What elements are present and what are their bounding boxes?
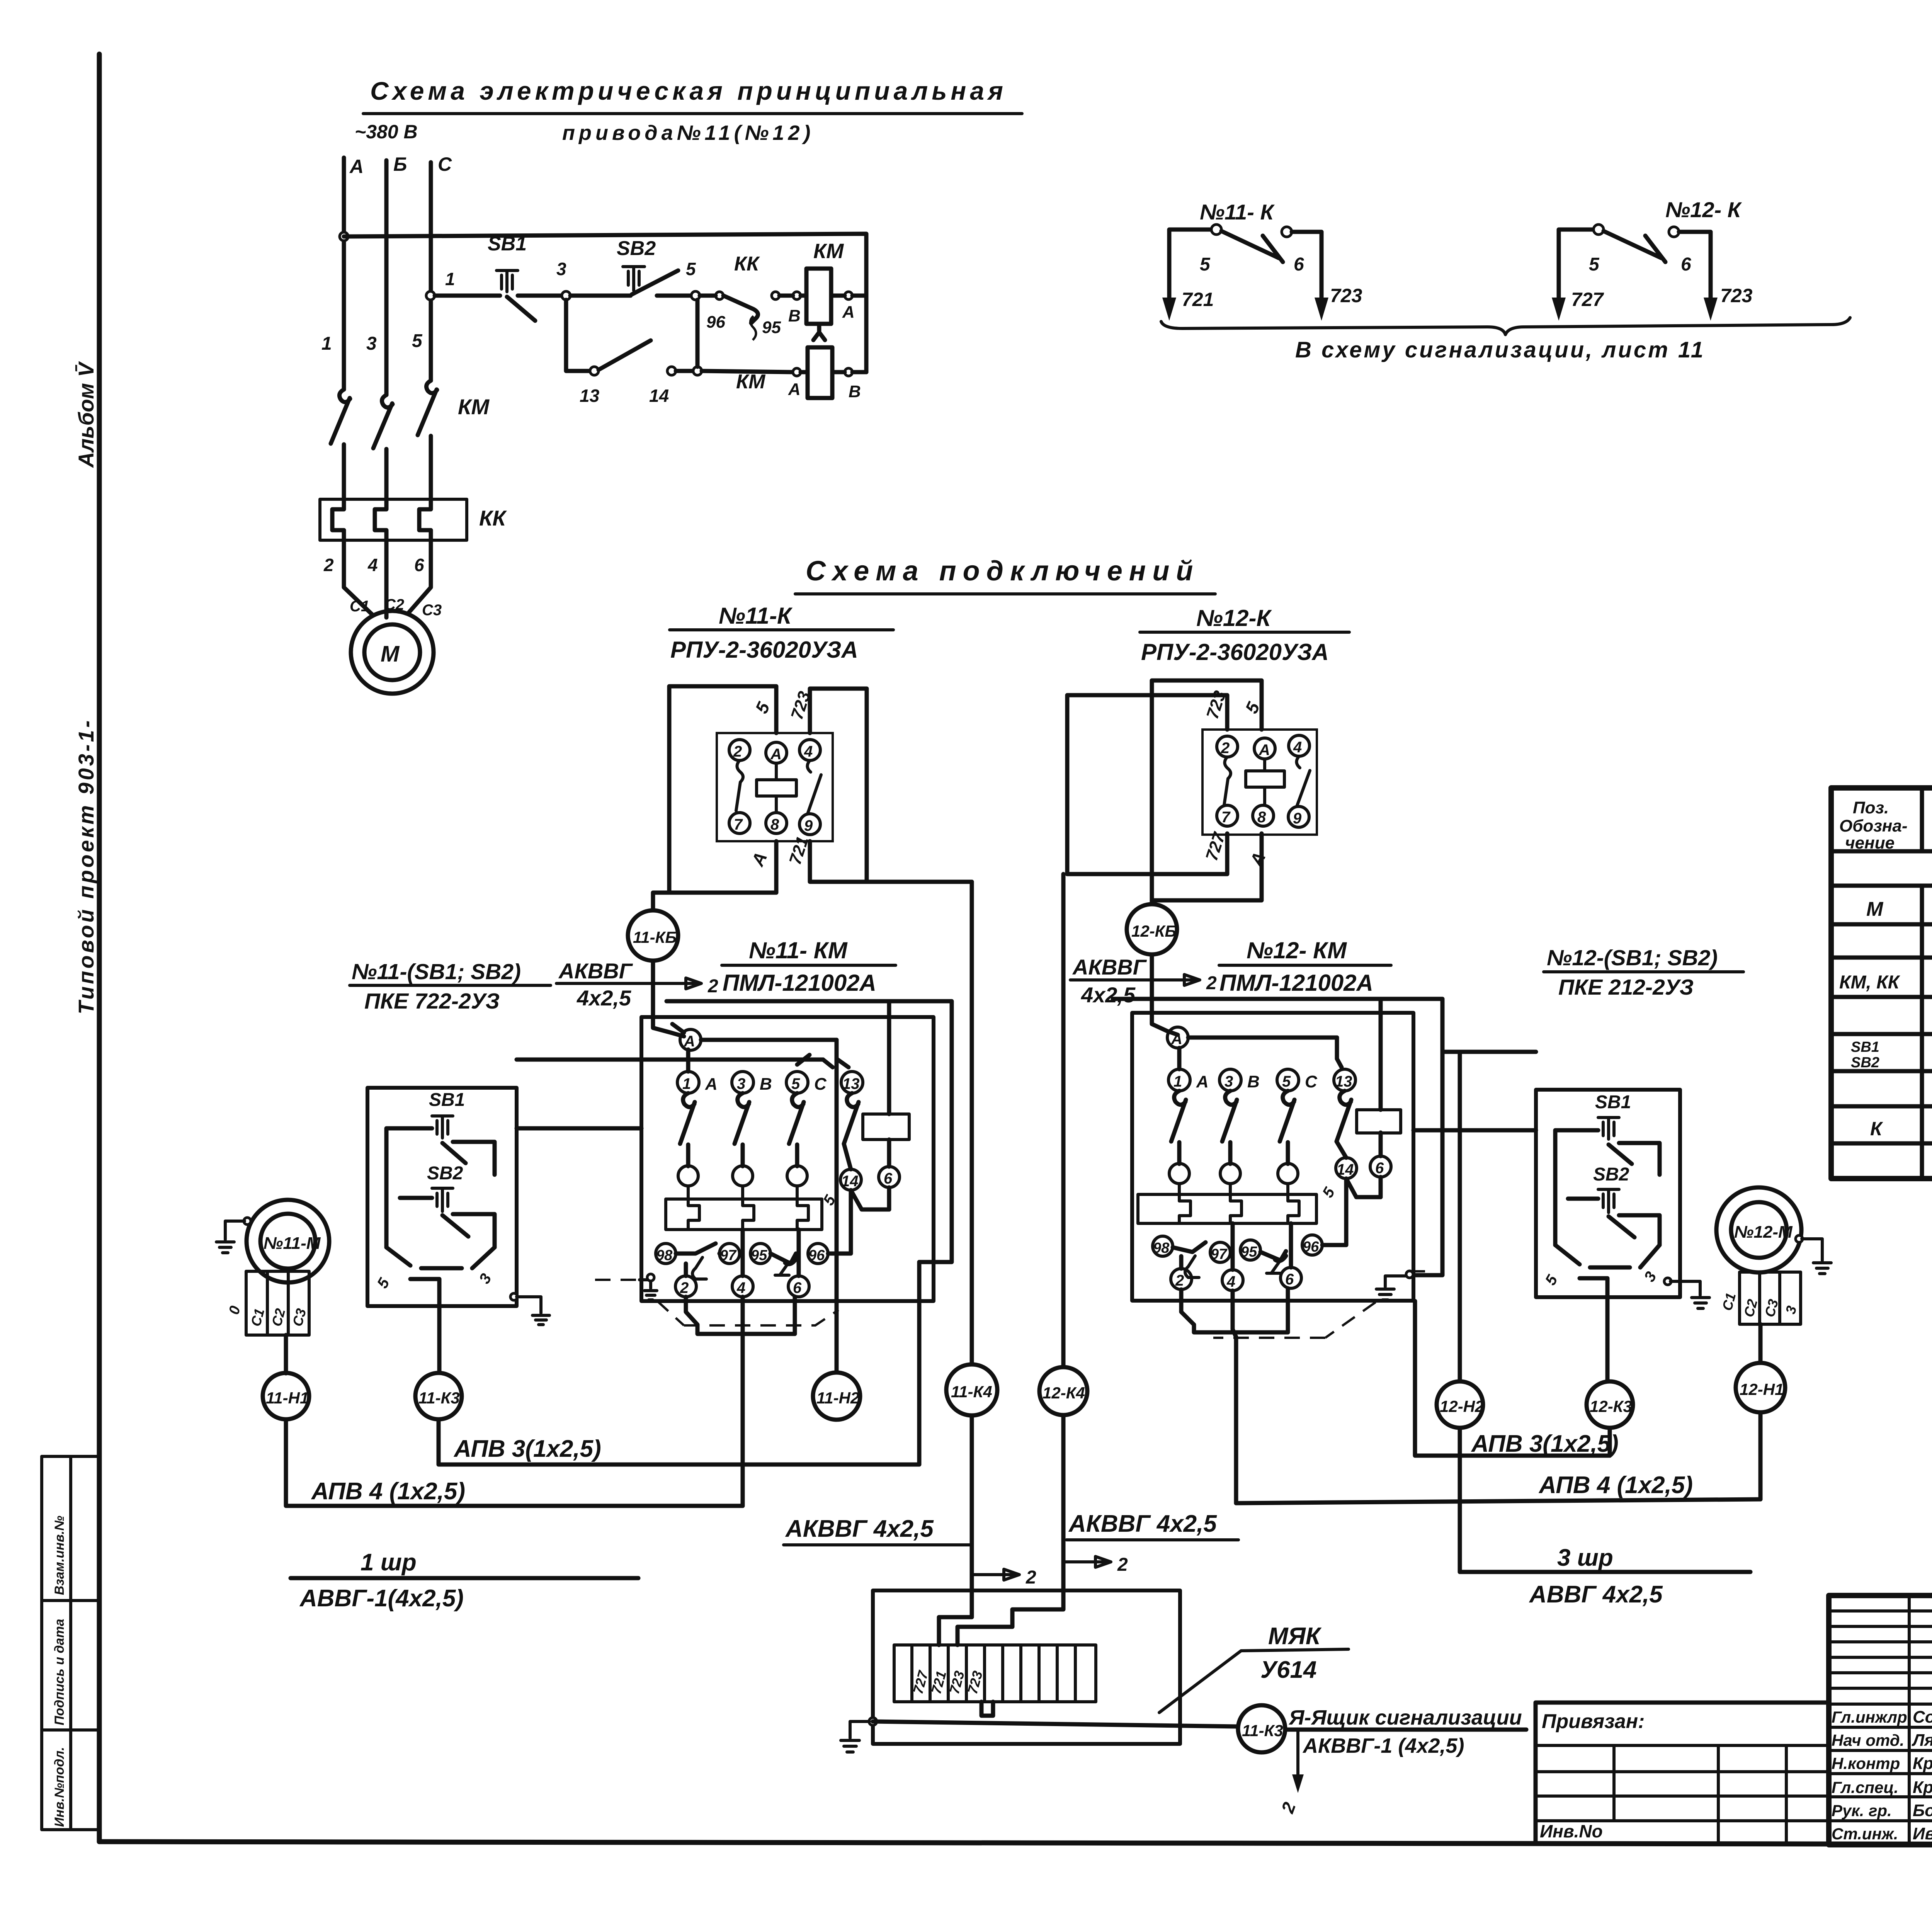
svg-text:АПВ 3(1х2,5): АПВ 3(1х2,5) xyxy=(453,1436,601,1462)
cable АПВ3 wire 12 xyxy=(1415,1301,1610,1456)
svg-text:12-К3: 12-К3 xyxy=(1590,1397,1632,1415)
svg-text:97: 97 xyxy=(720,1247,737,1264)
svg-text:Ст.инж.: Ст.инж. xyxy=(1832,1825,1898,1843)
contact 2-7 (12) xyxy=(1224,757,1231,805)
contact 4-9 (12) xyxy=(1296,756,1310,806)
signature rows xyxy=(1829,1704,1932,1821)
svg-text:КК: КК xyxy=(479,506,507,530)
ground motor 12 xyxy=(1796,1235,1803,1242)
svg-text:С3: С3 xyxy=(289,1307,310,1328)
svg-text:привода№11(№12): привода№11(№12) xyxy=(562,121,814,145)
table row lines xyxy=(1831,851,1932,1143)
pole 5/C xyxy=(786,1072,808,1093)
svg-text:1: 1 xyxy=(321,333,332,354)
svg-text:2: 2 xyxy=(680,1279,689,1296)
pin 95 (12) xyxy=(1240,1240,1260,1260)
circle 11-К4 xyxy=(946,1364,997,1415)
wire A bottom (12) xyxy=(1152,833,1262,900)
wire Я ящик xyxy=(873,1721,1238,1726)
svg-text:SB1: SB1 xyxy=(488,233,527,255)
svg-text:13: 13 xyxy=(842,1075,860,1092)
relay coil 12 xyxy=(1246,771,1284,787)
pin 9 xyxy=(799,814,820,835)
svg-text:ПКЕ 212-2УЗ: ПКЕ 212-2УЗ xyxy=(1558,975,1694,1000)
bottom-left mini table xyxy=(42,1456,100,1830)
svg-text:С2: С2 xyxy=(269,1307,289,1328)
svg-text:С3: С3 xyxy=(422,602,442,619)
pin 14 (12) xyxy=(1336,1158,1357,1179)
wire PKE to starter xyxy=(517,1060,823,1128)
wire 6 down right xyxy=(835,1050,839,1373)
wire down from loop to 11-KB xyxy=(653,893,669,910)
title block outer xyxy=(1829,1596,1932,1845)
svg-text:SB2: SB2 xyxy=(1593,1164,1629,1185)
svg-text:96: 96 xyxy=(808,1247,825,1264)
svg-text:С: С xyxy=(1305,1072,1318,1091)
svg-text:М: М xyxy=(1866,898,1884,920)
svg-text:13: 13 xyxy=(1335,1073,1352,1090)
circle 11-К3 bottom xyxy=(1238,1705,1285,1752)
svg-text:№12- КМ: №12- КМ xyxy=(1247,937,1347,963)
svg-text:КМ: КМ xyxy=(736,371,766,393)
svg-text:5: 5 xyxy=(1282,1073,1291,1090)
svg-text:7: 7 xyxy=(1221,809,1231,826)
svg-text:96: 96 xyxy=(706,313,725,332)
arrow wire 721 xyxy=(1162,298,1176,321)
svg-text:96: 96 xyxy=(1303,1239,1319,1255)
terminal strip МЯК xyxy=(894,1645,1096,1702)
svg-text:3: 3 xyxy=(1225,1073,1233,1090)
cable 1ШР wire xyxy=(291,1576,638,1580)
motor 11-M xyxy=(247,1200,329,1283)
relay coil xyxy=(757,780,796,796)
circle 11-КБ xyxy=(628,910,678,961)
pin 2 bottom (12) xyxy=(1171,1269,1192,1289)
pin 4 bottom xyxy=(732,1276,753,1297)
svg-text:С: С xyxy=(438,153,452,175)
svg-text:5: 5 xyxy=(751,699,774,716)
control node 5 xyxy=(691,291,700,300)
hook wire into pole 5 from PKE line xyxy=(797,1055,833,1067)
svg-text:Креймер: Креймер xyxy=(1913,1778,1932,1797)
svg-text:11-КБ: 11-КБ xyxy=(633,928,677,946)
svg-text:А: А xyxy=(1246,849,1270,869)
terminal A cable in xyxy=(680,1029,701,1050)
main pole blobs (12) xyxy=(1169,1163,1189,1184)
svg-text:727: 727 xyxy=(1571,289,1604,310)
svg-text:А: А xyxy=(684,1033,695,1050)
pole 1/A (12) xyxy=(1168,1069,1190,1091)
cable АПВ4 wire 12 xyxy=(1236,1499,1760,1503)
svg-text:С2: С2 xyxy=(1741,1298,1761,1319)
svg-text:А: А xyxy=(1259,742,1270,759)
circle 11-К3 xyxy=(415,1373,462,1419)
svg-text:А: А xyxy=(1196,1072,1209,1091)
svg-text:Привязан:: Привязан: xyxy=(1542,1710,1645,1733)
svg-text:95: 95 xyxy=(751,1247,767,1264)
svg-text:3: 3 xyxy=(556,259,566,279)
arrow down 2 xyxy=(1296,1731,1299,1776)
lower branch wire xyxy=(566,300,590,371)
svg-text:№12- К: №12- К xyxy=(1665,197,1742,222)
pin 98 xyxy=(656,1243,676,1264)
svg-text:2: 2 xyxy=(707,976,718,997)
svg-text:5: 5 xyxy=(1589,254,1600,275)
svg-text:А: А xyxy=(705,1075,718,1094)
pin 4 xyxy=(799,740,820,760)
thermal strip 12 xyxy=(1138,1194,1316,1223)
pole 3/B (12) xyxy=(1219,1069,1241,1091)
cable АПВ3 wire 11 xyxy=(439,1262,919,1465)
svg-text:12-К4: 12-К4 xyxy=(1043,1384,1085,1402)
svg-text:Боброва: Боброва xyxy=(1913,1801,1932,1820)
svg-text:2: 2 xyxy=(323,555,334,575)
wire 4 down (12) xyxy=(1233,1291,1236,1503)
wire below 11-КБ xyxy=(653,961,684,1036)
svg-text:Гл.спец.: Гл.спец. xyxy=(1832,1778,1898,1796)
svg-text:А: А xyxy=(788,380,801,399)
cable count arrow 2 xyxy=(654,978,701,989)
terminal cells C1 C2 C3 motor 12 xyxy=(1740,1272,1801,1324)
svg-text:А: А xyxy=(1171,1031,1182,1048)
svg-text:Схема подключений: Схема подключений xyxy=(806,556,1199,587)
svg-text:В: В xyxy=(849,382,861,401)
svg-text:5: 5 xyxy=(412,331,423,351)
svg-text:14: 14 xyxy=(841,1173,859,1190)
circle 12-КБ xyxy=(1127,904,1177,954)
svg-text:Типовой проект 903-1-: Типовой проект 903-1- xyxy=(74,718,98,1014)
svg-text:2: 2 xyxy=(1206,973,1217,993)
svg-text:ПМЛ-121002А: ПМЛ-121002А xyxy=(723,970,876,996)
arrow wire 727 xyxy=(1552,298,1566,321)
svg-text:0: 0 xyxy=(226,1304,244,1316)
pin 2 bottom xyxy=(675,1276,696,1297)
svg-text:1: 1 xyxy=(682,1075,691,1092)
control rail to SB1 xyxy=(435,294,500,298)
leader МЯК xyxy=(1159,1651,1241,1713)
svg-text:Схема электрическая принципиал: Схема электрическая принципиальная xyxy=(370,77,1007,105)
motor M xyxy=(351,611,434,694)
thermal relay KK box xyxy=(320,499,467,540)
pin 97 (12) xyxy=(1210,1242,1230,1262)
circle 12-Н1 xyxy=(1736,1363,1785,1412)
control node 1 xyxy=(426,291,435,300)
thermal strip 11 xyxy=(666,1199,822,1230)
svg-text:11-Н1: 11-Н1 xyxy=(266,1389,309,1407)
svg-text:ПКЕ 722-2УЗ: ПКЕ 722-2УЗ xyxy=(364,989,500,1014)
pin 6 bottom (12) xyxy=(1281,1267,1301,1288)
wire 723 top xyxy=(810,689,867,882)
svg-text:№11-К: №11-К xyxy=(719,603,793,629)
svg-text:Альбом V̄: Альбом V̄ xyxy=(74,361,98,468)
svg-text:С1: С1 xyxy=(350,598,369,615)
svg-text:АКВВГ 4х2,5: АКВВГ 4х2,5 xyxy=(785,1516,934,1542)
wire below 12-КБ xyxy=(1152,954,1178,1035)
KK heater element phase A xyxy=(332,499,344,540)
svg-text:А: А xyxy=(842,303,855,321)
circle 11-Н2 xyxy=(813,1373,860,1420)
wire 4 down xyxy=(741,1297,745,1506)
svg-text:КМ, КК: КМ, КК xyxy=(1839,972,1901,993)
ground motor 11 xyxy=(244,1218,251,1225)
svg-text:SB2: SB2 xyxy=(1851,1055,1879,1071)
svg-text:3 шр: 3 шр xyxy=(1557,1544,1613,1571)
motor 12-M xyxy=(1716,1187,1801,1272)
arrow wire 723 right xyxy=(1704,298,1718,321)
svg-text:8: 8 xyxy=(1257,809,1266,826)
svg-text:SB2: SB2 xyxy=(427,1163,463,1184)
Привязан grid xyxy=(1536,1745,1829,1842)
pin 14 xyxy=(840,1169,861,1190)
svg-text:11-К3: 11-К3 xyxy=(1242,1721,1283,1740)
svg-text:6: 6 xyxy=(793,1279,802,1296)
thin rows upper xyxy=(1829,1611,1932,1688)
svg-text:2: 2 xyxy=(1026,1567,1036,1588)
svg-text:АПВ 3(1х2,5): АПВ 3(1х2,5) xyxy=(1471,1431,1619,1457)
ground PKE12 xyxy=(1664,1278,1671,1285)
svg-text:5: 5 xyxy=(374,1275,393,1291)
svg-text:98: 98 xyxy=(656,1247,673,1264)
svg-text:97: 97 xyxy=(1211,1246,1228,1262)
cable АПВ4 wire 11 xyxy=(286,1419,743,1506)
relay box 12-K xyxy=(1202,730,1317,835)
МЯК box xyxy=(873,1590,1180,1744)
svg-text:SB1: SB1 xyxy=(1851,1039,1879,1055)
terminal cells C1 C2 C3 motor 11 xyxy=(246,1271,309,1335)
strip dividers xyxy=(912,1645,1075,1702)
contact 12-K wires xyxy=(1559,230,1594,311)
contact 4-9 xyxy=(807,760,821,814)
Привязан block xyxy=(1536,1703,1829,1842)
svg-text:М: М xyxy=(381,641,400,667)
svg-text:КК: КК xyxy=(734,253,760,275)
svg-text:11-К3: 11-К3 xyxy=(418,1389,460,1407)
relay box 11-K xyxy=(717,733,833,841)
svg-text:АПВ 4 (1х2,5): АПВ 4 (1х2,5) xyxy=(311,1478,465,1505)
wire loop 5 (12) xyxy=(1152,680,1262,903)
pin 6 bottom xyxy=(788,1276,809,1297)
cable 3ШР wire xyxy=(1460,1570,1750,1574)
svg-text:6: 6 xyxy=(1681,254,1691,275)
svg-text:У614: У614 xyxy=(1260,1657,1316,1683)
wire phase B vertical xyxy=(384,160,389,395)
svg-text:3: 3 xyxy=(1782,1304,1800,1316)
ground in box 12 xyxy=(1376,1276,1406,1300)
svg-text:2: 2 xyxy=(1117,1555,1128,1575)
svg-text:14: 14 xyxy=(649,386,669,406)
svg-text:95: 95 xyxy=(1241,1244,1257,1260)
svg-text:МЯК: МЯК xyxy=(1268,1623,1322,1650)
circle 11-Н1 xyxy=(263,1373,309,1419)
svg-text:4: 4 xyxy=(1293,739,1302,756)
contact 95-96 xyxy=(770,1254,796,1264)
frame left border xyxy=(97,54,102,1842)
coil lower (KM B) xyxy=(813,324,825,340)
terminal A cable in (12) xyxy=(1167,1027,1188,1048)
outer wire loop 12 xyxy=(1113,999,1442,1275)
svg-text:Н.контр: Н.контр xyxy=(1832,1754,1900,1772)
svg-text:4х2,5: 4х2,5 xyxy=(577,986,631,1010)
wire 723 top (12) xyxy=(1067,695,1227,874)
svg-text:5: 5 xyxy=(1319,1184,1338,1201)
ground МЯК xyxy=(869,1718,877,1725)
svg-text:6: 6 xyxy=(884,1170,893,1187)
svg-text:Б: Б xyxy=(393,153,407,175)
contact 11-K wires xyxy=(1169,230,1212,311)
svg-text:SB2: SB2 xyxy=(617,237,656,260)
KK heater element phase C xyxy=(419,499,431,540)
svg-text:723: 723 xyxy=(1330,285,1362,306)
svg-text:12-КБ: 12-КБ xyxy=(1131,922,1176,940)
svg-text:Инв.№подл.: Инв.№подл. xyxy=(52,1747,67,1827)
pin 9 xyxy=(1288,806,1309,827)
svg-text:АВВГ 4х2,5: АВВГ 4х2,5 xyxy=(1529,1581,1663,1608)
svg-text:95: 95 xyxy=(762,318,781,337)
svg-text:3: 3 xyxy=(366,333,377,354)
svg-text:Поз.: Поз. xyxy=(1853,798,1889,817)
svg-text:Нач отд.: Нач отд. xyxy=(1832,1731,1904,1749)
svg-text:1: 1 xyxy=(445,269,455,289)
wires to motor xyxy=(344,540,373,615)
svg-text:В: В xyxy=(1247,1072,1260,1091)
svg-text:7: 7 xyxy=(734,816,743,833)
node on phase A xyxy=(340,232,348,241)
outer wire loop 11 xyxy=(667,1001,952,1262)
pin 97 xyxy=(719,1243,740,1264)
svg-text:723: 723 xyxy=(1720,285,1753,306)
svg-text:4: 4 xyxy=(367,555,378,575)
svg-text:Гл.инжлр: Гл.инжлр xyxy=(1832,1708,1907,1726)
pin 8 xyxy=(1253,805,1274,826)
svg-text:В: В xyxy=(788,306,801,325)
svg-text:Рук. гр.: Рук. гр. xyxy=(1832,1801,1892,1820)
svg-text:1: 1 xyxy=(1173,1073,1182,1090)
svg-text:5: 5 xyxy=(791,1075,800,1092)
svg-text:В схему сигнализации, лист 11: В схему сигнализации, лист 11 xyxy=(1295,337,1705,362)
svg-text:Иванова: Иванова xyxy=(1913,1824,1932,1843)
svg-text:№11-(SB1; SB2): №11-(SB1; SB2) xyxy=(352,959,521,984)
svg-text:РПУ-2-36020УЗА: РПУ-2-36020УЗА xyxy=(1141,639,1329,665)
pole 13 xyxy=(841,1072,863,1093)
wire phase C vertical xyxy=(429,162,433,381)
ground PKE11 xyxy=(510,1293,517,1300)
starter coil 12 xyxy=(1357,1110,1401,1133)
svg-text:АКВВГ 4х2,5: АКВВГ 4х2,5 xyxy=(1068,1510,1217,1537)
svg-text:Подпись и дата: Подпись и дата xyxy=(52,1619,67,1725)
svg-text:3: 3 xyxy=(476,1271,495,1286)
svg-text:чение: чение xyxy=(1845,833,1895,852)
svg-text:8: 8 xyxy=(770,816,779,833)
pin 2 xyxy=(1217,736,1238,757)
pin 98 (12) xyxy=(1153,1236,1173,1256)
svg-text:9: 9 xyxy=(1293,810,1302,827)
svg-text:Лятынцев: Лятынцев xyxy=(1912,1731,1932,1750)
svg-text:SB1: SB1 xyxy=(429,1090,465,1110)
pin 4 xyxy=(1289,735,1310,756)
svg-text:С: С xyxy=(814,1075,827,1094)
svg-text:№12-М: №12-М xyxy=(1734,1223,1793,1242)
pin 6 right xyxy=(879,1167,900,1187)
wire 96 to right xyxy=(828,1190,851,1254)
wires into strip xyxy=(939,1590,972,1645)
svg-text:6: 6 xyxy=(1285,1271,1294,1288)
circle 12-Н2 xyxy=(1437,1381,1483,1428)
wire motor to 11-Н1 xyxy=(284,1335,288,1373)
frame bottom border xyxy=(99,1842,1932,1845)
wire phase A vertical xyxy=(342,158,346,390)
svg-text:Обозна-: Обозна- xyxy=(1839,816,1908,835)
wire loop 5 xyxy=(669,686,776,893)
svg-text:11-Н2: 11-Н2 xyxy=(816,1389,859,1407)
svg-text:АКВВГ: АКВВГ xyxy=(1072,955,1147,979)
pin A xyxy=(766,742,787,763)
svg-text:Взам.инв.№: Взам.инв.№ xyxy=(52,1516,67,1595)
svg-text:5: 5 xyxy=(1200,254,1211,275)
contact 98-97 xyxy=(676,1243,719,1254)
svg-text:С1: С1 xyxy=(1719,1291,1739,1312)
pin 95 xyxy=(750,1243,770,1264)
svg-text:А: А xyxy=(770,746,782,763)
PKE12 bottom wires xyxy=(1555,1245,1660,1267)
svg-text:№11-М: №11-М xyxy=(264,1234,321,1253)
svg-text:АПВ 4 (1х2,5): АПВ 4 (1х2,5) xyxy=(1538,1472,1693,1499)
svg-text:2: 2 xyxy=(1175,1272,1184,1289)
bottom jumper 2-6 (12) xyxy=(1181,1288,1288,1332)
svg-text:12-Н1: 12-Н1 xyxy=(1740,1380,1784,1398)
PKE 12 box xyxy=(1536,1090,1680,1297)
wire 727 bottom (12) xyxy=(1067,833,1227,874)
contact 2-7 xyxy=(736,760,743,811)
pole 5/C (12) xyxy=(1277,1069,1299,1091)
svg-text:2: 2 xyxy=(733,743,742,760)
main pole blobs xyxy=(678,1166,698,1186)
circle 12-К3 xyxy=(1587,1381,1633,1428)
svg-text:13: 13 xyxy=(580,386,600,406)
svg-text:3: 3 xyxy=(737,1075,745,1092)
svg-text:К: К xyxy=(1870,1118,1883,1140)
cable count arrow 2 (12) xyxy=(1153,975,1200,985)
svg-text:А: А xyxy=(349,156,364,177)
svg-text:Креймер: Креймер xyxy=(1913,1754,1932,1773)
svg-text:РПУ-2-36020УЗА: РПУ-2-36020УЗА xyxy=(670,637,858,663)
svg-text:Соловьев: Соловьев xyxy=(1913,1708,1932,1726)
svg-text:4: 4 xyxy=(1226,1273,1235,1290)
svg-text:2: 2 xyxy=(1221,740,1230,757)
contact KM aux 13-14 xyxy=(590,367,599,375)
svg-text:КМ: КМ xyxy=(813,240,844,263)
svg-text:4: 4 xyxy=(736,1279,745,1296)
pin 4 bottom (12) xyxy=(1222,1270,1243,1291)
svg-text:№12-(SB1; SB2): №12-(SB1; SB2) xyxy=(1547,946,1718,970)
wire 721 bottom xyxy=(810,841,972,882)
svg-text:АКВВГ: АКВВГ xyxy=(558,959,633,983)
svg-text:№11- КМ: №11- КМ xyxy=(749,937,848,963)
circle 12-К4 xyxy=(1039,1367,1087,1415)
PKE 11 box xyxy=(367,1088,517,1306)
svg-text:9: 9 xyxy=(804,817,813,834)
svg-text:6: 6 xyxy=(414,555,424,575)
svg-text:Я-Ящик сигнализации: Я-Ящик сигнализации xyxy=(1288,1706,1522,1729)
brace to signalling xyxy=(1161,318,1850,335)
svg-text:С1: С1 xyxy=(248,1307,268,1328)
starter coil 11 xyxy=(863,1114,909,1140)
svg-text:SB1: SB1 xyxy=(1595,1092,1631,1112)
pin 96 xyxy=(808,1243,828,1264)
svg-text:12-Н2: 12-Н2 xyxy=(1440,1397,1484,1415)
svg-text:14: 14 xyxy=(1337,1161,1354,1178)
pole 3/B xyxy=(732,1072,753,1093)
pin 7 xyxy=(729,813,750,833)
